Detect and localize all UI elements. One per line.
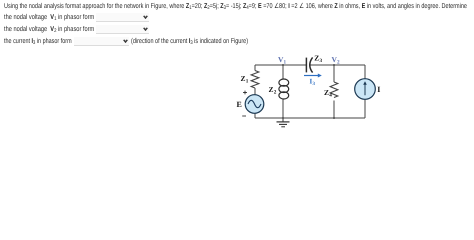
svg-text:E: E <box>237 100 242 109</box>
svg-text:3: 3 <box>313 81 316 87</box>
svg-text:I: I <box>377 85 380 94</box>
svg-text:1: 1 <box>284 60 287 66</box>
svg-text:Z: Z <box>241 74 246 83</box>
svg-text:Z: Z <box>269 85 274 94</box>
svg-text:1: 1 <box>246 79 249 85</box>
svg-text:3: 3 <box>320 58 323 64</box>
svg-text:Z: Z <box>324 88 329 97</box>
svg-text:Z: Z <box>314 54 319 63</box>
svg-text:4: 4 <box>329 93 332 99</box>
svg-text:2: 2 <box>274 90 277 96</box>
svg-text:2: 2 <box>337 60 340 66</box>
